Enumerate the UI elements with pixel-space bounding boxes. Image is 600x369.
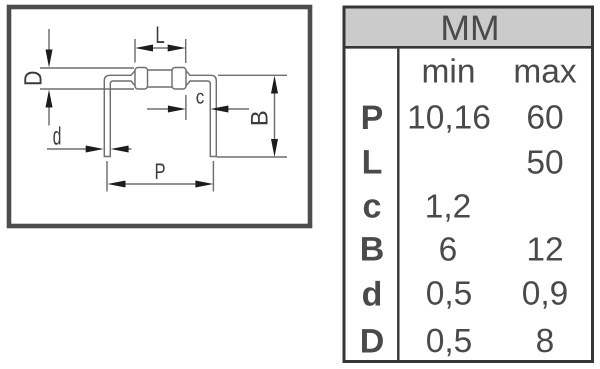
arrowhead c left (right-pointing)	[168, 106, 186, 113]
svg-text:12: 12	[526, 232, 563, 269]
svg-text:d: d	[53, 122, 62, 150]
table outer border	[344, 7, 593, 362]
svg-text:c: c	[363, 188, 382, 226]
svg-text:0,5: 0,5	[426, 323, 473, 360]
svg-text:L: L	[362, 144, 383, 182]
svg-text:P: P	[154, 159, 165, 184]
svg-text:D: D	[20, 71, 48, 86]
svg-text:8: 8	[536, 323, 555, 360]
arrowhead L right	[168, 45, 186, 52]
arrowhead D top (down)	[46, 50, 53, 68]
svg-text:B: B	[247, 110, 274, 126]
svg-text:c: c	[196, 87, 205, 109]
svg-text:1,2: 1,2	[425, 189, 472, 226]
svg-text:10,16: 10,16	[407, 100, 491, 137]
svg-text:max: max	[513, 54, 577, 91]
svg-text:50: 50	[526, 145, 563, 182]
resistor body barrel	[148, 70, 173, 87]
dimension D extension lines	[40, 68, 134, 89]
svg-text:0,9: 0,9	[522, 276, 569, 313]
arrowhead c right (left-pointing)	[210, 106, 228, 113]
dimension c line	[147, 108, 249, 110]
dimension L extension lines	[135, 39, 186, 63]
svg-text:0,5: 0,5	[426, 276, 473, 313]
svg-text:d: d	[362, 276, 383, 314]
dimension c extension tick	[185, 95, 187, 120]
arrowhead B top (up)	[271, 76, 278, 94]
table header fill	[346, 9, 592, 47]
arrowhead P right	[195, 181, 213, 188]
table column divider	[397, 49, 399, 361]
arrowhead d right (left-pointing)	[111, 146, 129, 153]
resistor body right cap	[172, 68, 186, 90]
svg-text:6: 6	[439, 232, 458, 269]
arrowhead P left	[108, 181, 126, 188]
resistor body left cap	[135, 68, 148, 90]
arrowhead D bottom (up)	[46, 90, 53, 108]
svg-text:MM: MM	[440, 8, 499, 48]
lead left horizontal and bend	[104, 71, 135, 157]
table header separator	[344, 46, 593, 49]
dimension P line	[125, 183, 196, 185]
dimension B line	[274, 93, 276, 140]
arrowhead L left	[135, 45, 153, 52]
svg-text:B: B	[360, 231, 385, 269]
svg-text:P: P	[361, 99, 384, 137]
svg-text:D: D	[360, 323, 385, 361]
dimension B extension lines	[217, 75, 287, 157]
dimension d line	[47, 148, 132, 150]
dimension D line	[48, 29, 50, 126]
arrowhead d left (right-pointing)	[86, 146, 104, 153]
dimension P extension lines	[107, 161, 213, 192]
svg-text:L: L	[155, 22, 164, 49]
arrowhead B bottom (down)	[271, 139, 278, 157]
svg-text:60: 60	[526, 100, 563, 137]
lead right horizontal and bend	[186, 71, 216, 157]
svg-text:min: min	[422, 54, 476, 91]
dimension L line	[153, 47, 168, 49]
